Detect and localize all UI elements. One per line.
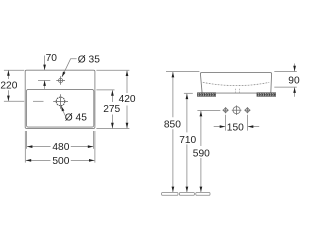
- dim 500 (overall width, bottom): [25, 131, 95, 163]
- dim 480 (inner width, bottom): [27, 131, 94, 149]
- svg-text:Ø 45: Ø 45: [65, 112, 87, 123]
- dim 150 (fitting spacing): [214, 115, 260, 131]
- svg-text:70: 70: [46, 53, 58, 64]
- left mounting pad (hatched): [197, 93, 215, 97]
- right mounting pad (hatched): [257, 93, 276, 97]
- dim 220 (top edge to drain center): [4, 70, 44, 101]
- dim 90 (basin depth, right): [274, 64, 297, 97]
- floor line segments: [162, 193, 210, 196]
- svg-text:480: 480: [52, 142, 69, 153]
- hidden bowl bottom (dashed): [203, 82, 269, 85]
- svg-text:590: 590: [193, 149, 210, 160]
- svg-text:275: 275: [103, 104, 120, 115]
- drain fitting circle: [232, 105, 242, 115]
- svg-text:420: 420: [119, 94, 136, 105]
- dim 590 (drain outlet over floor): [197, 111, 220, 192]
- svg-text:500: 500: [52, 156, 69, 167]
- faucet hole Ø35: [56, 76, 65, 85]
- dim 710 (basin underside over floor): [184, 93, 193, 192]
- washbasin outer rim (plan view): [25, 70, 95, 128]
- svg-text:90: 90: [288, 76, 300, 87]
- supply fitting diamond left: [223, 107, 229, 113]
- dim 850 (rim height over floor): [166, 72, 199, 192]
- label Ø 35 with leader: [62, 59, 77, 77]
- supply fitting diamond right: [244, 107, 250, 113]
- label Ø 45 with leader: [61, 106, 65, 116]
- dim 70 (top edge to faucet hole): [38, 56, 50, 89]
- svg-text:850: 850: [164, 119, 181, 130]
- washbasin inner bowl (plan view): [26, 89, 93, 127]
- drain hidden lines (dashed): [235, 89, 237, 93]
- dim 420 (overall height, right): [96, 70, 129, 128]
- svg-text:150: 150: [227, 122, 244, 133]
- drain hole Ø45: [53, 94, 68, 109]
- svg-text:Ø 35: Ø 35: [78, 55, 100, 66]
- svg-text:710: 710: [179, 135, 196, 146]
- washbasin front elevation outline: [200, 73, 271, 94]
- dim 275 (bowl to bottom, right): [96, 90, 114, 128]
- svg-text:220: 220: [0, 81, 17, 92]
